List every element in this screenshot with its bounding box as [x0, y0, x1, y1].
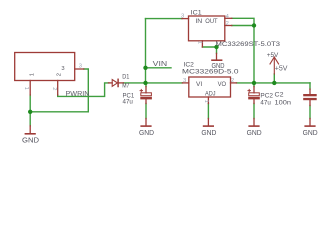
- svg-text:PWRIN: PWRIN: [66, 91, 90, 98]
- svg-text:1: 1: [23, 87, 29, 90]
- svg-text:ADJ: ADJ: [205, 90, 216, 97]
- svg-text:47u: 47u: [123, 99, 134, 106]
- svg-text:GND: GND: [201, 130, 216, 137]
- svg-text:IC2: IC2: [184, 62, 195, 69]
- svg-text:2: 2: [51, 87, 57, 90]
- svg-text:3: 3: [183, 78, 186, 84]
- svg-text:M7: M7: [122, 82, 129, 89]
- svg-text:VI: VI: [196, 81, 202, 88]
- svg-text:OUT: OUT: [205, 18, 218, 25]
- svg-text:2: 2: [56, 73, 62, 76]
- svg-text:+5V: +5V: [275, 65, 288, 72]
- svg-text:IC1: IC1: [191, 10, 202, 17]
- svg-text:100n: 100n: [275, 100, 292, 107]
- svg-text:3: 3: [79, 64, 82, 70]
- svg-text:2: 2: [231, 78, 234, 84]
- svg-text:GND: GND: [303, 130, 318, 137]
- svg-text:IN: IN: [195, 18, 202, 25]
- svg-text:PC2: PC2: [260, 92, 273, 99]
- svg-text:47u: 47u: [260, 99, 271, 106]
- svg-text:+5V: +5V: [267, 52, 279, 59]
- svg-text:GND: GND: [247, 130, 262, 137]
- svg-text:C2: C2: [275, 91, 284, 98]
- svg-text:VO: VO: [218, 81, 227, 88]
- svg-text:GND: GND: [139, 130, 154, 137]
- svg-text:D1: D1: [122, 73, 129, 80]
- svg-text:3: 3: [61, 66, 64, 72]
- svg-text:1: 1: [196, 41, 202, 44]
- svg-text:MC33269ST-5.0T3: MC33269ST-5.0T3: [216, 41, 281, 48]
- svg-text:VIN: VIN: [153, 61, 168, 68]
- svg-text:2: 2: [226, 21, 229, 27]
- svg-text:3: 3: [181, 13, 184, 19]
- svg-text:GND: GND: [22, 137, 39, 144]
- svg-text:MC33269D-5.0: MC33269D-5.0: [182, 69, 239, 76]
- svg-text:GND: GND: [212, 63, 225, 70]
- svg-text:1: 1: [203, 100, 209, 103]
- svg-text:1: 1: [30, 73, 36, 76]
